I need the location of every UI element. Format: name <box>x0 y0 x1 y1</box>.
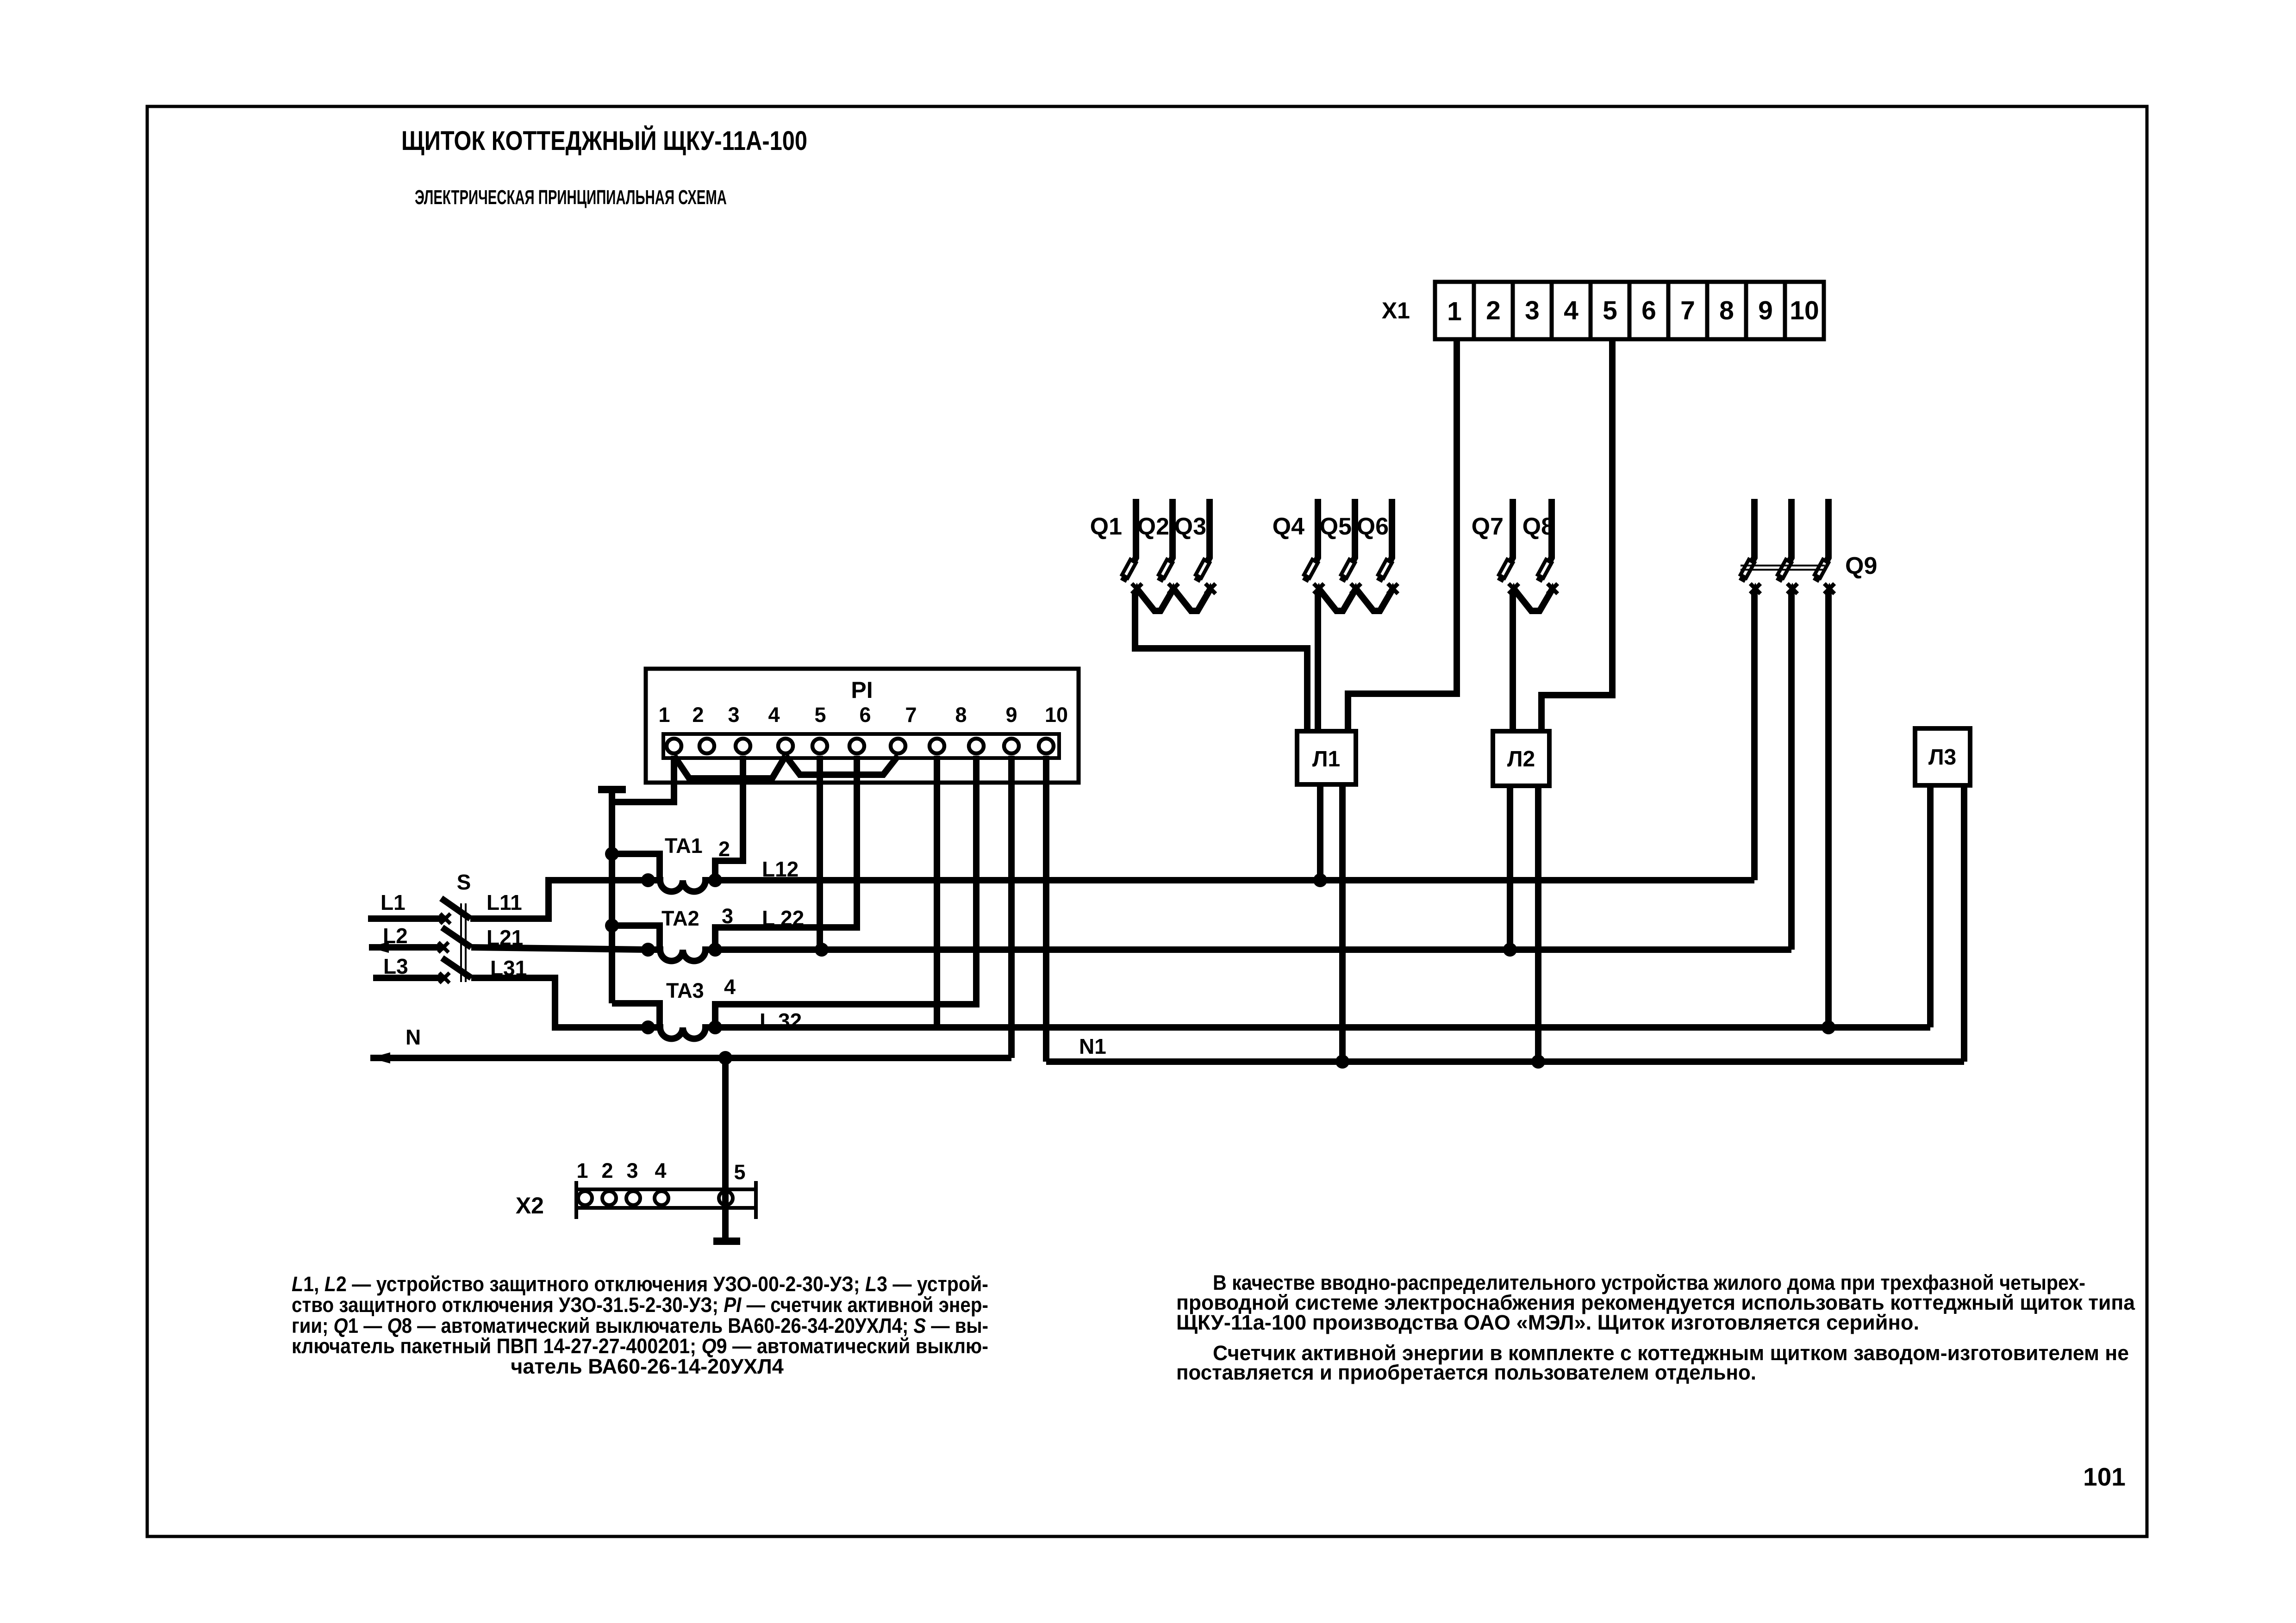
svg-text:Л2: Л2 <box>1507 747 1535 771</box>
wire L3 box to L32 <box>1927 785 1934 1027</box>
arrowhead N <box>370 1052 390 1063</box>
switch S blade 2 <box>442 927 471 947</box>
svg-text:5: 5 <box>734 1160 745 1184</box>
svg-text:ЭЛЕКТРИЧЕСКАЯ ПРИНЦИПИАЛЬНАЯ С: ЭЛЕКТРИЧЕСКАЯ ПРИНЦИПИАЛЬНАЯ СХЕМА <box>415 186 727 209</box>
svg-text:X2: X2 <box>516 1193 544 1219</box>
current transformer TA2 <box>612 926 715 961</box>
svg-text:2: 2 <box>718 837 730 861</box>
wire PI-5 tap to L22 <box>817 756 823 950</box>
svg-text:1: 1 <box>658 703 670 727</box>
svg-text:N1: N1 <box>1079 1034 1106 1058</box>
svg-text:L2: L2 <box>383 924 408 948</box>
wire Q9 pole1 to L12 <box>1751 591 1758 880</box>
breaker Q1 <box>1122 499 1142 594</box>
wire PI-1 to ground bus <box>612 756 674 802</box>
svg-text:PI: PI <box>851 677 873 703</box>
wire L1 box to N1 <box>1339 784 1346 1062</box>
svg-text:поставляется и приобретается п: поставляется и приобретается пользовател… <box>1176 1361 1756 1384</box>
svg-text:9: 9 <box>1758 296 1773 325</box>
svg-text:Q2: Q2 <box>1137 513 1169 540</box>
line L3 <box>373 975 444 981</box>
breaker Q4 <box>1304 499 1324 594</box>
wire bus A (PI-1/ground) down left side <box>609 802 615 1003</box>
wire PI-11 to N1 <box>1043 756 1049 1062</box>
wire L21 <box>471 947 648 950</box>
svg-text:3: 3 <box>626 1159 638 1182</box>
comb wire joining Q7-Q8 outputs <box>1514 589 1553 611</box>
svg-text:9: 9 <box>1005 703 1017 727</box>
svg-text:7: 7 <box>1680 296 1695 325</box>
jumper PI 4-7 <box>786 756 898 775</box>
svg-text:L 32: L 32 <box>760 1009 802 1033</box>
border frame <box>147 106 2147 1536</box>
svg-text:4: 4 <box>724 975 736 999</box>
wire PI-6 to TA2 terminal 3 <box>715 756 857 950</box>
svg-text:Q4: Q4 <box>1273 513 1304 540</box>
wire L2 box to L22 <box>1507 786 1513 950</box>
svg-text:8: 8 <box>1719 296 1734 325</box>
wire Q7 group output to L2 box <box>1510 591 1516 732</box>
ground <box>598 790 626 802</box>
svg-text:L1, L2 — устройство защитного: L1, L2 — устройство защитного отключения… <box>292 1272 988 1296</box>
svg-text:10: 10 <box>1045 703 1068 727</box>
ground at X2 <box>713 1237 740 1245</box>
breaker Q7 <box>1499 499 1519 594</box>
terminal circles X2 <box>578 1191 733 1205</box>
svg-text:ство защитного отключения УЗО-: ство защитного отключения УЗО-31.5-2-30-… <box>292 1293 988 1317</box>
wire L12 <box>715 877 1754 883</box>
switch S linkage bar <box>461 903 466 982</box>
svg-text:5: 5 <box>1603 296 1617 325</box>
svg-text:Q7: Q7 <box>1472 513 1504 540</box>
wire N1 <box>1046 1058 1964 1065</box>
svg-text:2: 2 <box>1486 296 1501 325</box>
breaker Q8 <box>1538 499 1558 594</box>
svg-text:3: 3 <box>728 703 739 727</box>
current transformer TA3 <box>612 1003 715 1039</box>
wire X1-5 to L2 box <box>1541 339 1612 732</box>
svg-text:1: 1 <box>1447 297 1462 326</box>
svg-text:10: 10 <box>1790 296 1819 325</box>
legend text block <box>292 1272 988 1378</box>
meter PI terminal circles <box>667 739 1054 753</box>
arrowhead L2 <box>369 942 389 953</box>
svg-text:L 22: L 22 <box>762 906 804 930</box>
svg-text:4: 4 <box>768 703 780 727</box>
svg-text:X1: X1 <box>1382 298 1410 323</box>
wire Q9 pole3 to L32 <box>1825 591 1832 1027</box>
current transformer TA1 <box>612 854 715 892</box>
wire N to X2-5 <box>722 1058 729 1238</box>
RCD box L2 <box>1493 731 1549 786</box>
breaker Q9 pole 3 <box>1815 499 1834 594</box>
switch S blade 1 <box>441 898 470 919</box>
breaker Q9 pole 2 <box>1778 499 1797 594</box>
wire PI-8 tap to L32 <box>934 756 940 1027</box>
breaker Q3 <box>1196 499 1216 594</box>
svg-text:Л1: Л1 <box>1312 747 1340 771</box>
svg-text:ЩКУ-11а-100 производства ОАО «: ЩКУ-11а-100 производства ОАО «МЭЛ». Щито… <box>1176 1311 1919 1334</box>
comb wire joining Q1-Q3 outputs <box>1137 589 1210 611</box>
linkage bar Q9 <box>1741 566 1825 570</box>
wire Q4 group output to L1 box <box>1315 591 1321 732</box>
svg-text:TA1: TA1 <box>665 834 703 858</box>
svg-text:TA2: TA2 <box>661 907 699 930</box>
svg-text:N: N <box>406 1025 421 1049</box>
svg-text:L12: L12 <box>762 857 799 881</box>
svg-text:2: 2 <box>692 703 704 727</box>
svg-text:1: 1 <box>576 1159 588 1182</box>
RCD box L3 <box>1915 728 1970 785</box>
svg-text:101: 101 <box>2083 1462 2126 1491</box>
wire PI-10 to N <box>1008 756 1015 1058</box>
svg-text:3: 3 <box>722 904 733 928</box>
switch S blade 3 <box>442 958 471 978</box>
breaker Q9 pole 1 <box>1741 499 1760 594</box>
pin numbers X1 1-10 <box>1447 296 1819 326</box>
svg-text:Q6: Q6 <box>1357 513 1389 540</box>
svg-text:L31: L31 <box>490 956 527 980</box>
svg-text:Q8: Q8 <box>1522 513 1554 540</box>
contact X of switch S pole 2 <box>438 942 449 952</box>
RCD box L1 <box>1297 731 1356 784</box>
wire L31 <box>471 978 648 1027</box>
svg-text:Q1: Q1 <box>1090 513 1122 540</box>
meter PI terminal strip <box>663 734 1059 758</box>
wire PI-9 to TA3 terminal 4 <box>715 756 976 1027</box>
junction dots <box>605 847 1835 1069</box>
svg-text:7: 7 <box>905 703 917 727</box>
breaker Q2 <box>1159 499 1179 594</box>
svg-text:L11: L11 <box>487 890 522 914</box>
svg-text:Q9: Q9 <box>1845 553 1877 579</box>
wire L32 <box>715 1024 1930 1031</box>
wire L22 <box>715 946 1791 953</box>
line L2 <box>369 944 443 951</box>
pin numbers PI 1-10 <box>658 703 1068 727</box>
svg-text:L21: L21 <box>487 926 523 950</box>
svg-text:L3: L3 <box>383 954 408 978</box>
svg-text:TA3: TA3 <box>666 979 704 1002</box>
svg-text:ЩИТОК КОТТЕДЖНЫЙ ЩКУ-11А-100: ЩИТОК КОТТЕДЖНЫЙ ЩКУ-11А-100 <box>401 126 807 156</box>
svg-text:6: 6 <box>1641 296 1656 325</box>
breaker Q5 <box>1341 499 1361 594</box>
line L1 <box>368 915 445 922</box>
svg-text:чатель ВА60-26-14-20УХЛ4: чатель ВА60-26-14-20УХЛ4 <box>511 1355 784 1378</box>
wire L11 <box>470 880 648 919</box>
wire PI-3 to TA1 terminal 2 <box>715 756 743 880</box>
wire L2 box to N1 <box>1535 786 1541 1062</box>
svg-text:3: 3 <box>1525 296 1540 325</box>
wire X1-1 to L1 box <box>1348 339 1457 732</box>
svg-text:6: 6 <box>859 703 871 727</box>
contact X of switch S pole 1 <box>440 914 450 924</box>
jumper PI 1-4 <box>674 756 786 778</box>
svg-text:8: 8 <box>955 703 967 727</box>
terminal block X1 <box>1435 282 1824 339</box>
wire Q9 pole2 to L22 <box>1788 591 1795 950</box>
terminal block X2 <box>576 1181 756 1219</box>
line N <box>370 1055 1011 1061</box>
meter PI box <box>646 669 1079 783</box>
svg-text:S: S <box>457 870 471 894</box>
pin numbers X2 <box>576 1159 745 1184</box>
comb wire joining Q4-Q6 outputs <box>1319 589 1393 611</box>
breaker Q6 <box>1378 499 1398 594</box>
svg-text:Q5: Q5 <box>1320 513 1352 540</box>
wire L1 box to L12 <box>1317 784 1323 880</box>
svg-text:4: 4 <box>655 1159 666 1182</box>
wire Q1 group output to L1 box <box>1135 591 1307 732</box>
svg-text:Q3: Q3 <box>1174 513 1206 540</box>
wire L3 box to N1 <box>1961 785 1967 1062</box>
svg-text:2: 2 <box>601 1159 613 1182</box>
svg-text:5: 5 <box>814 703 826 727</box>
svg-text:Л3: Л3 <box>1928 745 1956 770</box>
svg-text:L1: L1 <box>381 890 406 914</box>
contact X of switch S pole 3 <box>439 973 449 983</box>
paragraph text block <box>1176 1271 2135 1384</box>
svg-text:4: 4 <box>1564 296 1578 325</box>
